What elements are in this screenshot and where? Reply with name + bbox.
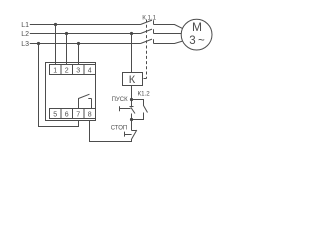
svg-text:СТОП: СТОП [111,125,128,131]
wire L3 to motor [154,41,183,44]
svg-text:К: К [129,74,136,86]
svg-text:6: 6 [65,111,69,118]
svg-text:L2: L2 [21,31,29,38]
node B (bottom of start branch) [130,118,133,121]
wire L3 to terminal 7 (down, under box, up) [39,44,79,127]
svg-text:3: 3 [76,67,80,74]
svg-text:2: 2 [65,67,69,74]
svg-text:7: 7 [76,111,80,118]
wire L1 to motor [154,25,183,29]
svg-text:1: 1 [53,67,57,74]
wire STOP to terminal 8 [90,121,132,142]
wire L2 to motor [154,33,182,35]
wire L1 horizontal [30,24,141,26]
contactor coil K box [123,73,143,86]
pushbutton PUSK actuator [120,106,131,111]
svg-text:ПУСК: ПУСК [112,97,128,103]
wire L2 tap down to coil K [131,34,133,73]
node L1 junction [54,23,57,26]
dashed mechanical link K1.1 to coil K [143,20,147,79]
svg-text:4: 4 [88,67,92,74]
node A (top of start branch) [130,98,133,101]
wire L1 to terminal 1 [55,25,57,65]
svg-text:L3: L3 [21,41,29,48]
wire coil K down to node A [131,86,133,107]
node L3 junction right [77,42,80,45]
pushbutton STOP (NC) seat tick [132,130,137,132]
svg-text:8: 8 [88,111,92,118]
contact K1.2 (NO, parallel branch) [132,100,148,120]
svg-text:L1: L1 [21,22,29,29]
svg-text:5: 5 [53,111,57,118]
relay U1 bottom terminal row [50,109,96,119]
pushbutton STOP actuator [125,132,132,137]
node L2 junction [65,32,68,35]
relay U1 internal NO contact [79,94,92,108]
wire L3 to terminal 3 [78,44,80,65]
svg-text:М: М [192,20,202,34]
contactor contact K1.1 pole L1 [141,20,154,24]
svg-text:3 ~: 3 ~ [189,35,205,47]
pushbutton STOP blade [131,130,137,140]
wire L2 horizontal [30,33,141,35]
contactor contact K1.1 pole L2 [141,29,154,33]
contactor contact K1.1 pole L3 [141,39,154,43]
svg-text:К1.2: К1.2 [137,91,150,98]
pushbutton PUSK (NO) [130,107,136,120]
svg-text:К: К [142,15,146,22]
wire node B to STOP [131,120,133,131]
wire L3 horizontal [30,43,141,45]
node L2 tap for coil [130,32,133,35]
relay U1 top terminal row [50,65,96,75]
motor M circle [181,19,212,50]
wire L2 to terminal 2 [66,34,68,65]
relay U1 outer box [46,63,96,121]
node L3 junction left [37,42,40,45]
